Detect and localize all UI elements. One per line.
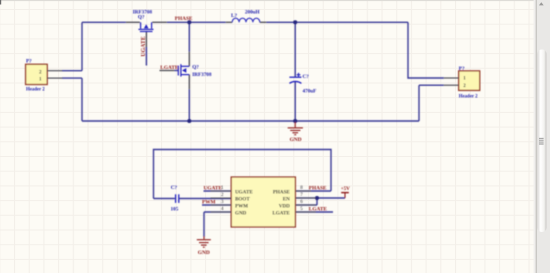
svg-text:LGATE: LGATE [272,211,290,217]
svg-text:C?: C? [303,74,310,80]
svg-text:+5V: +5V [341,186,350,192]
svg-text:P?: P? [26,59,32,65]
svg-text:PWM: PWM [202,199,216,205]
svg-text:VDD: VDD [279,204,290,210]
svg-text:PWM: PWM [235,204,248,210]
svg-text:L?: L? [231,13,237,19]
svg-text:EN: EN [283,197,290,203]
svg-text:UGATE: UGATE [235,190,253,196]
svg-text:P?: P? [459,66,465,72]
svg-text:PHASE: PHASE [175,16,193,22]
svg-text:UGATE: UGATE [204,185,223,191]
svg-text:Header 2: Header 2 [459,94,478,99]
svg-text:UGATE: UGATE [141,36,147,56]
svg-text:IRF3708: IRF3708 [192,72,212,78]
svg-text:Q?: Q? [138,15,145,21]
svg-text:BOOT: BOOT [235,197,250,203]
svg-text:GND: GND [198,250,210,256]
svg-text:LGATE: LGATE [309,206,328,212]
svg-text:PHASE: PHASE [309,185,327,191]
svg-text:C?: C? [171,185,178,191]
svg-text:LGATE: LGATE [160,65,179,71]
svg-text:470uF: 470uF [303,89,317,95]
svg-text:105: 105 [171,207,179,213]
svg-text:Q?: Q? [192,64,199,70]
svg-text:Header 2: Header 2 [26,88,45,93]
svg-text:200uH: 200uH [245,10,260,16]
svg-text:GND: GND [235,211,247,217]
svg-text:PHASE: PHASE [273,190,291,196]
svg-text:GND: GND [290,137,302,143]
